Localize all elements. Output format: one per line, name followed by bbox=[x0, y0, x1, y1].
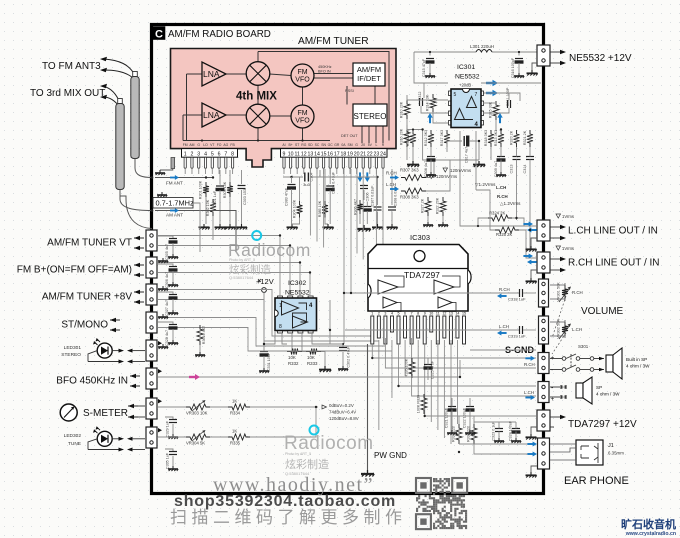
wire net pin12 C304 bbox=[283, 176, 303, 178]
label 1Vrms L bbox=[556, 214, 561, 218]
svg-text:FB: FB bbox=[230, 143, 235, 147]
ground C322 bbox=[465, 430, 475, 435]
svg-text:R318 3K3: R318 3K3 bbox=[484, 130, 488, 146]
svg-text:11: 11 bbox=[436, 312, 440, 316]
label 0.7-1.7MHz bbox=[153, 198, 193, 209]
svg-text:R324 2K: R324 2K bbox=[489, 211, 506, 216]
svg-text:AM/FM TUNER VT: AM/FM TUNER VT bbox=[47, 238, 132, 249]
ground C331 bbox=[259, 368, 269, 373]
capacitor C305 4u7 bbox=[158, 236, 173, 239]
resistor R321 2K bbox=[527, 130, 533, 147]
resistor R319 20K bbox=[410, 130, 416, 147]
capacitor C309 4u7 bbox=[497, 157, 505, 162]
svg-text:AM/FM: AM/FM bbox=[357, 65, 381, 74]
capacitor C386 0.47uF bbox=[329, 169, 331, 184]
svg-text:R312 3K3: R312 3K3 bbox=[424, 130, 428, 146]
ground C307 bbox=[372, 224, 383, 230]
signal arrow BFO pink bbox=[189, 374, 200, 380]
svg-text:B+: B+ bbox=[288, 143, 292, 147]
tuner FM VFO 1 bbox=[291, 64, 314, 87]
svg-text:1K: 1K bbox=[232, 399, 237, 404]
wire R302 down bbox=[212, 216, 214, 240]
tuner mixer 1 bbox=[246, 62, 270, 86]
wire BFO 450KHz bbox=[158, 360, 460, 377]
wire vertical feeds to IC302 bbox=[343, 169, 345, 344]
ground R301 bbox=[199, 224, 210, 230]
connector L.CH LINE OUT/IN bbox=[537, 220, 550, 241]
svg-text:120dBuV=8.8V: 120dBuV=8.8V bbox=[329, 416, 359, 421]
svg-text:1Vrms: 1Vrms bbox=[562, 246, 574, 251]
capacitor C313 bbox=[513, 157, 521, 160]
wire line out R bbox=[476, 190, 495, 230]
ground C316 bbox=[514, 73, 524, 78]
svg-text:18: 18 bbox=[341, 151, 347, 157]
ground R322 bbox=[438, 222, 448, 227]
wire TDA outputs bbox=[372, 338, 536, 416]
resistor R303 15K bbox=[227, 182, 233, 197]
capacitor C307 0.01uF bbox=[377, 177, 379, 205]
svg-text:0.7-1.7MHz: 0.7-1.7MHz bbox=[156, 199, 195, 208]
svg-text:NE5532: NE5532 bbox=[455, 74, 480, 81]
resistor R315 33K bbox=[493, 101, 499, 120]
wire AM ANT net bbox=[155, 211, 236, 253]
svg-text:Radiocom: Radiocom bbox=[228, 240, 311, 260]
connector AM/FM TUNER VT bbox=[146, 230, 157, 251]
svg-text:IC303: IC303 bbox=[410, 233, 430, 242]
svg-text:C321 100uF: C321 100uF bbox=[445, 407, 449, 428]
svg-text:R333: R333 bbox=[307, 361, 318, 366]
tuner mixer 2 bbox=[246, 104, 270, 128]
arrows to FM ANT3 bbox=[104, 59, 135, 80]
IC IC303 TDA7297 body bbox=[368, 245, 468, 312]
svg-text:C306: C306 bbox=[366, 192, 370, 201]
capacitor C317 4u7 series bbox=[447, 141, 462, 152]
resistor R320 2K bbox=[514, 130, 520, 147]
svg-text:C307 0.01uF: C307 0.01uF bbox=[371, 185, 375, 207]
svg-text:R307 3K3: R307 3K3 bbox=[400, 168, 419, 173]
svg-text:R310 20K: R310 20K bbox=[400, 101, 404, 118]
svg-text:RSSI: RSSI bbox=[345, 89, 354, 93]
svg-text:12: 12 bbox=[301, 151, 307, 157]
svg-text:Photo by ART_5: Photo by ART_5 bbox=[229, 258, 255, 262]
svg-text:AM: AM bbox=[189, 143, 194, 147]
svg-text:S301: S301 bbox=[578, 344, 589, 349]
resistor R310 20K bbox=[404, 100, 410, 119]
wire pot wiper dashed bbox=[552, 296, 566, 338]
svg-text:1K: 1K bbox=[232, 429, 237, 434]
svg-text:R332: R332 bbox=[288, 361, 299, 366]
connector NE5532 +12V bbox=[537, 45, 550, 66]
capacitor C302 0.47uF bbox=[342, 344, 344, 348]
resistor R307 3K3 bbox=[401, 175, 426, 181]
svg-text:3: 3 bbox=[384, 312, 386, 316]
capacitor C304 3u3 bbox=[305, 173, 309, 182]
svg-text:GC: GC bbox=[328, 143, 334, 147]
ground FM ANT tab bbox=[155, 170, 165, 175]
resistor R306 4K7 bbox=[357, 200, 363, 214]
resistor R329 100K bbox=[421, 394, 427, 414]
resistor R302 10K bbox=[210, 199, 216, 216]
svg-text:Q:538017644: Q:538017644 bbox=[229, 275, 254, 280]
wire bus fan bbox=[158, 236, 392, 352]
TDA7297 pins bbox=[371, 316, 466, 344]
block AM/FM tuner module bbox=[171, 49, 397, 168]
svg-text:C312: C312 bbox=[418, 91, 422, 100]
op-amp IC301 NE5532 bbox=[449, 89, 484, 128]
wire LED301 to connector bbox=[112, 350, 119, 352]
signal arrow earphone 1 bbox=[527, 441, 537, 446]
ground C321 bbox=[447, 430, 457, 435]
capacitor C314 bbox=[526, 157, 534, 160]
svg-text:9: 9 bbox=[424, 312, 426, 316]
svg-text:5: 5 bbox=[398, 312, 400, 316]
svg-text:1Vrms: 1Vrms bbox=[562, 214, 574, 219]
svg-text:7: 7 bbox=[224, 151, 227, 157]
signal arrow earphone 2 bbox=[527, 451, 537, 456]
wire verticals from tuner pins to bus bbox=[310, 169, 383, 272]
arrow S-METER 1 bbox=[128, 404, 138, 408]
signal arrow spk R bbox=[525, 356, 535, 361]
svg-text:G: G bbox=[355, 143, 358, 147]
svg-text:Radiocom: Radiocom bbox=[284, 433, 374, 454]
signal arrow up right bbox=[497, 113, 502, 123]
ground PW GND bbox=[361, 470, 374, 477]
resistor R301 100K bbox=[203, 182, 209, 197]
wire pot wiper dashed 2 bbox=[552, 333, 566, 354]
svg-text:74dBuV=6.4V: 74dBuV=6.4V bbox=[329, 410, 356, 415]
svg-text:R335: R335 bbox=[230, 441, 241, 446]
ground earphone bbox=[531, 466, 537, 472]
arrow NE5532+12V 1 bbox=[560, 50, 566, 54]
earphone jack J1 bbox=[576, 440, 603, 465]
svg-text:R315 33K: R315 33K bbox=[489, 101, 493, 118]
svg-text:C303 153: C303 153 bbox=[243, 189, 247, 205]
svg-text:TDA7297: TDA7297 bbox=[404, 270, 440, 280]
wire det L to IC301 bbox=[426, 160, 450, 191]
op-amp IC302 NE5532 bbox=[275, 296, 317, 333]
signal arrow down L bbox=[357, 172, 362, 182]
svg-text:C302 0.47uF: C302 0.47uF bbox=[347, 346, 351, 368]
svg-text:3: 3 bbox=[197, 151, 200, 157]
resistor R322 20K bbox=[440, 197, 446, 216]
signal arrow down R bbox=[365, 172, 370, 182]
svg-text:AM/FM RADIO BOARD: AM/FM RADIO BOARD bbox=[168, 29, 271, 40]
connector speaker L.CH bbox=[538, 382, 549, 403]
svg-text:R320 2K: R320 2K bbox=[509, 130, 513, 145]
svg-text:TO FM ANT3: TO FM ANT3 bbox=[42, 61, 101, 72]
ground C317 bbox=[473, 161, 485, 167]
svg-text:R.CH: R.CH bbox=[497, 194, 508, 199]
capacitor C306 4u7 bbox=[158, 264, 173, 267]
svg-text:VR304 5K: VR304 5K bbox=[186, 441, 205, 446]
svg-text:EAR PHONE: EAR PHONE bbox=[564, 475, 629, 487]
wire TDA +12V row bbox=[459, 443, 536, 445]
svg-text:L: L bbox=[375, 143, 377, 147]
signal arrows line L bbox=[523, 221, 533, 226]
ground C305 R306 bbox=[358, 225, 371, 232]
capacitor C328 4u7 bbox=[158, 322, 173, 325]
svg-text:DET OUT: DET OUT bbox=[341, 134, 358, 138]
svg-text:R327 2K: R327 2K bbox=[421, 198, 425, 213]
potentiometer VR302 50K bbox=[562, 322, 568, 336]
label S-meter levels bbox=[322, 405, 327, 409]
svg-text:20: 20 bbox=[354, 151, 360, 157]
svg-text:8: 8 bbox=[231, 151, 234, 157]
resistor R314 33K bbox=[430, 94, 436, 112]
svg-text:FM B+(ON=FM OFF=AM): FM B+(ON=FM OFF=AM) bbox=[17, 265, 132, 276]
svg-text:16: 16 bbox=[327, 151, 333, 157]
svg-text:▽1.2Vrms: ▽1.2Vrms bbox=[475, 182, 496, 187]
meter S-METER symbol bbox=[60, 404, 77, 421]
wire pin drops cluster A bbox=[185, 168, 232, 174]
svg-text:5V: 5V bbox=[368, 143, 373, 147]
capacitor C321 100uF bbox=[448, 407, 456, 412]
wire R.CH to volume bbox=[345, 292, 519, 294]
ground C315 bbox=[425, 73, 435, 78]
svg-text:R385 10K: R385 10K bbox=[318, 200, 322, 217]
tuner FM ANT tab bbox=[171, 158, 175, 169]
svg-text:R326 100K: R326 100K bbox=[405, 358, 409, 377]
ground NE5532 conn bbox=[532, 63, 537, 70]
svg-text:C317 4u7: C317 4u7 bbox=[465, 147, 469, 163]
svg-text:C323 0.1uF: C323 0.1uF bbox=[492, 421, 496, 441]
svg-text:AM/FM TUNER +8V: AM/FM TUNER +8V bbox=[42, 292, 132, 303]
svg-text:AG: AG bbox=[223, 143, 228, 147]
capacitor C335 1uF bbox=[165, 449, 173, 452]
svg-text:BFO 450KHz IN: BFO 450KHz IN bbox=[56, 376, 128, 387]
svg-text:17: 17 bbox=[334, 151, 340, 157]
tuner internal wires bbox=[187, 73, 203, 75]
ground L line out bbox=[531, 238, 537, 246]
resistor R334 1K bbox=[228, 404, 250, 410]
capacitor C323 0.1uF bbox=[495, 429, 503, 432]
signal arrow up left bbox=[427, 113, 432, 123]
wire IC302 pins down bbox=[282, 333, 287, 344]
terminal +12V circle bbox=[262, 288, 267, 293]
svg-text:FM: FM bbox=[297, 69, 307, 76]
connector LED301 STEREO bbox=[146, 340, 157, 361]
svg-text:120mVrms: 120mVrms bbox=[450, 168, 472, 173]
svg-text:5: 5 bbox=[211, 151, 214, 157]
svg-text:LED302: LED302 bbox=[64, 433, 82, 439]
capacitor C327 4u7 bbox=[158, 292, 173, 295]
svg-text:GR: GR bbox=[334, 143, 340, 147]
svg-text:TO 3rd MIX OUT: TO 3rd MIX OUT bbox=[30, 88, 105, 99]
resistor R3010 4K7 bbox=[197, 325, 203, 345]
svg-text:19: 19 bbox=[347, 151, 353, 157]
connector polarity ticks bbox=[158, 341, 162, 345]
signal arrow L.CH det bbox=[390, 187, 399, 192]
inductor L301 220uH bbox=[476, 50, 492, 53]
svg-text:AI: AI bbox=[282, 143, 285, 147]
op-amps inside TDA7297 bbox=[378, 280, 398, 294]
svg-text:VT: VT bbox=[210, 143, 214, 147]
svg-text:ST: ST bbox=[295, 143, 299, 147]
svg-text:3u3: 3u3 bbox=[303, 182, 310, 187]
svg-text:IC301: IC301 bbox=[457, 64, 475, 71]
svg-text:C313: C313 bbox=[509, 164, 513, 173]
ground TDA conn bbox=[531, 427, 537, 434]
svg-text:21: 21 bbox=[360, 151, 366, 157]
svg-text:24: 24 bbox=[380, 151, 386, 157]
capacitor C315 47uF bbox=[429, 52, 431, 56]
svg-text:R308 3K3: R308 3K3 bbox=[400, 195, 419, 200]
QR code watermark bbox=[416, 478, 467, 529]
wire R318 down bbox=[490, 147, 492, 160]
antenna 3rd mix whip bbox=[118, 99, 123, 104]
svg-text:4 ohm / 3W: 4 ohm / 3W bbox=[626, 364, 650, 369]
connector BFO 450KHz IN bbox=[146, 368, 157, 389]
svg-text:C314: C314 bbox=[523, 164, 527, 173]
ground C303 bbox=[236, 224, 247, 230]
svg-text:VFO: VFO bbox=[295, 77, 310, 84]
tuner STEREO block bbox=[353, 104, 387, 126]
svg-text:14: 14 bbox=[314, 151, 320, 157]
svg-text:2: 2 bbox=[191, 151, 194, 157]
resistor R332 10K bbox=[287, 349, 302, 355]
svg-text:0A: 0A bbox=[341, 143, 346, 147]
svg-text:R314 33K: R314 33K bbox=[426, 94, 430, 111]
svg-text:1: 1 bbox=[184, 151, 187, 157]
signal arrow FM ANT blue bbox=[170, 175, 179, 180]
resistor R327 2K bbox=[425, 197, 431, 216]
resistor R324 2K bbox=[488, 215, 512, 221]
svg-text:R.CH LINE OUT / IN: R.CH LINE OUT / IN bbox=[568, 258, 660, 269]
ground C324 bbox=[511, 438, 521, 443]
wire net y177 to C307 bbox=[320, 176, 378, 178]
speaker built-in SP bbox=[606, 355, 613, 372]
svg-text:炫彩制造: 炫彩制造 bbox=[285, 457, 329, 471]
svg-text:R301 100K: R301 100K bbox=[199, 180, 203, 199]
svg-text:R331 220: R331 220 bbox=[467, 426, 471, 442]
svg-text:C331 10uF: C331 10uF bbox=[267, 352, 271, 371]
svg-text:L.CH: L.CH bbox=[524, 390, 534, 395]
svg-text:R.CH: R.CH bbox=[499, 287, 510, 292]
svg-text:旷石收音机: 旷石收音机 bbox=[621, 517, 676, 531]
svg-text:R.CH: R.CH bbox=[524, 362, 535, 367]
svg-text:AM/FM TUNER: AM/FM TUNER bbox=[298, 36, 369, 47]
connector ear phone bbox=[538, 438, 550, 469]
wire IC301 top feed bbox=[414, 52, 448, 83]
svg-text:Photo by ART_5: Photo by ART_5 bbox=[285, 452, 311, 456]
tuner LNA2 amplifier bbox=[202, 103, 226, 127]
svg-text:0dBuV=0.2V: 0dBuV=0.2V bbox=[329, 403, 354, 408]
resistor R330 220 bbox=[456, 424, 462, 444]
signal arrow IC301 out bbox=[486, 90, 498, 96]
svg-text:C316 100uF: C316 100uF bbox=[511, 57, 515, 78]
connector speaker R.CH bbox=[538, 353, 549, 374]
svg-text:C: C bbox=[155, 28, 163, 40]
resistor R316 20K bbox=[404, 128, 410, 147]
svg-text:1: 1 bbox=[371, 312, 373, 316]
svg-text:+20dB: +20dB bbox=[459, 83, 471, 88]
resistor R318 3K3 bbox=[488, 130, 494, 147]
wires to earphone bbox=[550, 443, 576, 445]
wire LED302 to connector bbox=[112, 438, 119, 440]
svg-text:23: 23 bbox=[374, 151, 380, 157]
svg-text:FM: FM bbox=[183, 143, 188, 147]
svg-text:R319 20K: R319 20K bbox=[406, 129, 410, 146]
tuner connector strip pins 9-24 bbox=[281, 149, 388, 158]
svg-text:LNA: LNA bbox=[203, 110, 220, 120]
svg-text:C315 47uF: C315 47uF bbox=[422, 58, 426, 77]
speaker SP bbox=[576, 383, 583, 398]
wire PW GND bbox=[367, 344, 369, 470]
ground R3010 bbox=[199, 345, 201, 352]
svg-text:22: 22 bbox=[367, 151, 373, 157]
ground R319 bbox=[407, 161, 419, 167]
svg-text:8: 8 bbox=[417, 312, 419, 316]
wire 3rd mix antenna to board AM ANT node bbox=[119, 190, 121, 200]
svg-text:VR303 10K: VR303 10K bbox=[186, 411, 208, 416]
svg-text:10K: 10K bbox=[288, 355, 296, 360]
svg-text:6: 6 bbox=[404, 312, 406, 316]
svg-text:SP: SP bbox=[596, 385, 602, 390]
svg-text:TUNE: TUNE bbox=[68, 441, 81, 447]
junction dots bbox=[279, 234, 281, 236]
svg-text:15: 15 bbox=[321, 151, 327, 157]
svg-text:STEREO: STEREO bbox=[61, 352, 81, 358]
ground R385 bbox=[323, 224, 334, 230]
svg-text:10: 10 bbox=[288, 151, 294, 157]
arrow S-METER 2 bbox=[128, 415, 138, 419]
svg-text:R334: R334 bbox=[230, 411, 241, 416]
tuner LNA1 amplifier bbox=[202, 62, 226, 86]
svg-text:L.CH LINE OUT / IN: L.CH LINE OUT / IN bbox=[568, 226, 658, 237]
svg-text:L.CH: L.CH bbox=[386, 182, 396, 187]
label 1Vrms R bbox=[556, 246, 561, 250]
svg-text:5: 5 bbox=[454, 92, 457, 98]
capacitor C311 100P bbox=[508, 100, 511, 108]
svg-text:4: 4 bbox=[391, 312, 393, 316]
wire +12V down bbox=[263, 292, 265, 350]
arrow NE5532+12V 2 bbox=[560, 61, 566, 65]
LED LED302 TUNE bbox=[97, 431, 112, 446]
watermark ring 2 bbox=[310, 426, 319, 435]
svg-text:7: 7 bbox=[475, 92, 478, 98]
svg-text:扫描二维码了解更多制作: 扫描二维码了解更多制作 bbox=[170, 508, 407, 527]
svg-text:J1: J1 bbox=[608, 443, 614, 449]
capacitor C306 bbox=[360, 186, 368, 189]
ground C383 bbox=[287, 224, 298, 230]
resistor R304 100K bbox=[297, 201, 303, 218]
potentiometer VR304 5K bbox=[186, 434, 210, 440]
svg-text:VFO: VFO bbox=[295, 118, 310, 125]
tuner AM/FM IF/DET block bbox=[353, 63, 385, 86]
arrows speaker L bbox=[550, 387, 560, 397]
svg-text:6: 6 bbox=[218, 151, 221, 157]
potentiometer VR303 10K bbox=[186, 404, 210, 410]
svg-text:R316 20K: R316 20K bbox=[400, 128, 404, 145]
arrows to 3rd MIX OUT bbox=[104, 87, 120, 108]
svg-text:STEREO: STEREO bbox=[354, 112, 387, 121]
wire net above row bbox=[407, 125, 423, 130]
svg-text:www.crystalradio.cn: www.crystalradio.cn bbox=[625, 531, 676, 537]
connector S-METER bbox=[146, 398, 157, 419]
svg-text:R3010 4K7: R3010 4K7 bbox=[202, 326, 206, 344]
svg-text:C335 1uF: C335 1uF bbox=[166, 452, 170, 469]
ground R327 bbox=[423, 222, 433, 227]
svg-text:NE5532: NE5532 bbox=[285, 290, 310, 297]
svg-text:450KHz: 450KHz bbox=[318, 65, 332, 69]
svg-text:SN: SN bbox=[321, 143, 326, 147]
wire FM antenna to board FM ANT node bbox=[134, 159, 136, 169]
svg-text:IC302: IC302 bbox=[288, 280, 306, 287]
resistor R325 2K bbox=[495, 227, 519, 233]
svg-text:4th MIX: 4th MIX bbox=[236, 91, 277, 103]
svg-text:R302 10K: R302 10K bbox=[206, 199, 210, 216]
svg-text:FM: FM bbox=[297, 110, 307, 117]
